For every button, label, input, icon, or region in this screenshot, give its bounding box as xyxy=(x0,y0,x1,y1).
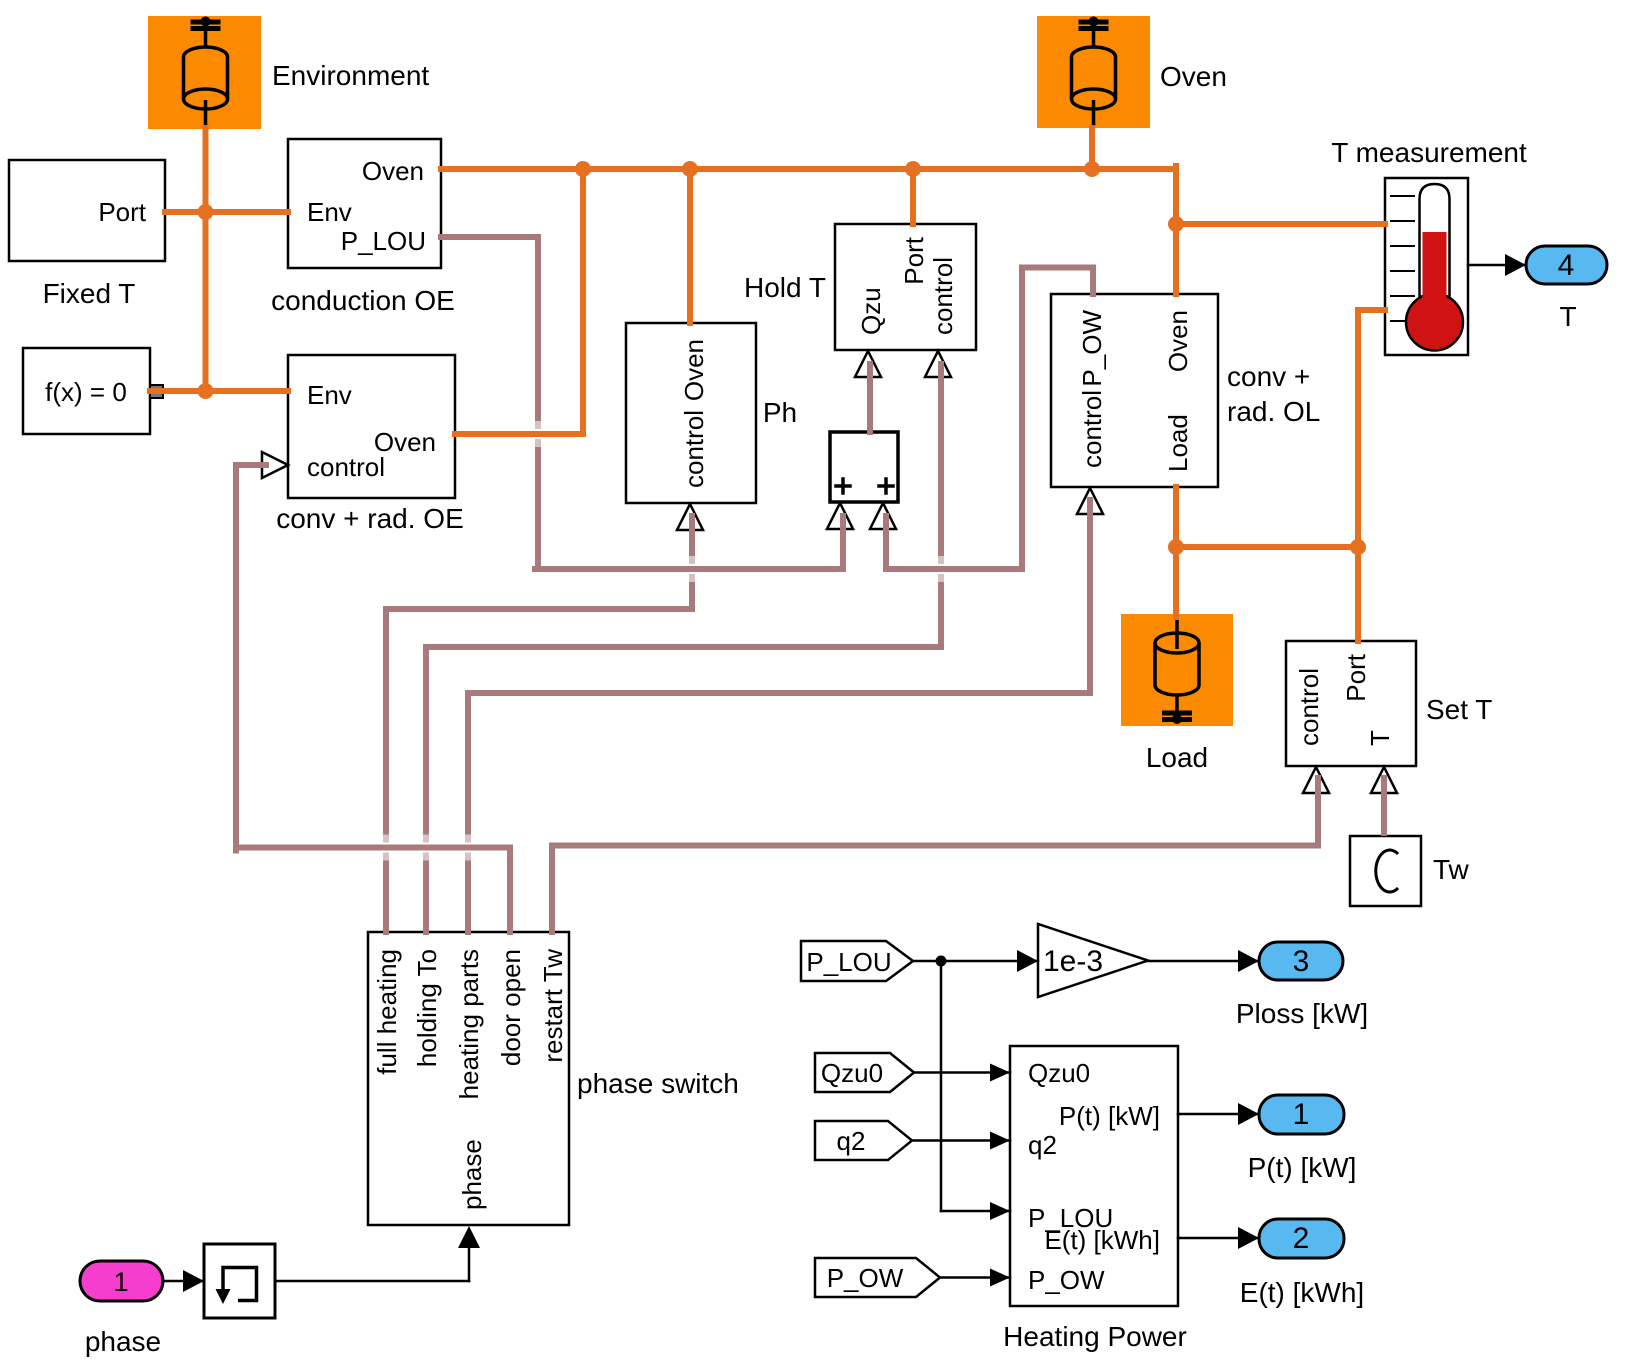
svg-text:Hold T: Hold T xyxy=(744,272,826,303)
svg-text:1: 1 xyxy=(113,1267,128,1297)
wire P_LOU to sum left xyxy=(441,237,843,569)
wire conv+rad OL P_OW to sum right xyxy=(886,268,1093,570)
svg-text:phase switch: phase switch xyxy=(577,1068,739,1099)
svg-text:P_OW: P_OW xyxy=(827,1263,904,1293)
wire bus to Ph Oven xyxy=(687,169,693,323)
wire Oven block drop xyxy=(1089,128,1095,169)
svg-text:phase: phase xyxy=(85,1326,161,1357)
svg-text:Port: Port xyxy=(1341,653,1371,701)
svg-text:Oven: Oven xyxy=(1160,61,1227,92)
svg-text:control: control xyxy=(679,410,709,488)
output port 4 T xyxy=(1526,246,1607,332)
wire f(x)=0 to Env xyxy=(150,388,288,394)
wire T measurement to port 4 xyxy=(1468,254,1526,276)
svg-text:control: control xyxy=(307,452,385,482)
block T measurement (thermometer) xyxy=(1331,137,1527,355)
wire up to T measurement lower port xyxy=(1358,310,1385,547)
svg-text:conv + rad. OE: conv + rad. OE xyxy=(276,503,464,534)
svg-text:f(x) = 0: f(x) = 0 xyxy=(45,377,127,407)
wire phase switch full heating to Ph control xyxy=(386,516,692,932)
svg-text:heating parts: heating parts xyxy=(454,949,484,1099)
svg-text:Qzu0: Qzu0 xyxy=(821,1058,883,1088)
svg-text:Oven: Oven xyxy=(362,156,424,186)
svg-text:Oven: Oven xyxy=(679,339,709,401)
block phase switch xyxy=(368,932,739,1225)
svg-text:P_OW: P_OW xyxy=(1077,310,1107,387)
wire phase switch restart Tw to Set T control xyxy=(552,778,1318,932)
wire Oven bus xyxy=(441,169,1176,224)
wire phase switch door open to conv+rad OE control xyxy=(236,465,510,932)
from tag Qzu0 xyxy=(815,1053,914,1092)
svg-text:1e-3: 1e-3 xyxy=(1043,945,1103,978)
wire down to Set T Port xyxy=(1355,547,1361,641)
svg-text:Ploss [kW]: Ploss [kW] xyxy=(1236,998,1368,1029)
output port 3 xyxy=(1236,942,1368,1029)
svg-text:T: T xyxy=(1559,301,1576,332)
wire to T measurement upper port xyxy=(1176,221,1385,227)
node bus junction A xyxy=(575,161,591,177)
svg-text:full heating: full heating xyxy=(372,949,402,1075)
wire Qzu0 tag to Heating Power xyxy=(914,1064,1010,1082)
svg-text:P_OW: P_OW xyxy=(1028,1265,1105,1295)
svg-text:Tw: Tw xyxy=(1433,854,1470,885)
node bus junction B xyxy=(682,161,698,177)
wire gain to port 3 xyxy=(1148,950,1259,972)
svg-text:conv +: conv + xyxy=(1227,361,1310,392)
block conv + rad. OE xyxy=(262,355,464,534)
svg-text:control: control xyxy=(1077,390,1107,468)
block Tw constant C xyxy=(1350,836,1470,906)
svg-text:rad. OL: rad. OL xyxy=(1227,396,1320,427)
svg-text:Port: Port xyxy=(899,236,929,284)
svg-text:control: control xyxy=(928,257,958,335)
output port 2 xyxy=(1240,1219,1364,1308)
wire Tw to Set T T xyxy=(1381,778,1387,833)
svg-text:P_LOU: P_LOU xyxy=(806,947,891,977)
node bus junction C xyxy=(905,161,921,177)
from tag P_OW xyxy=(815,1258,940,1297)
wire P_LOU branch to Heating Power xyxy=(941,961,1010,1220)
wire phase port to repeating block xyxy=(163,1270,204,1292)
block conduction OE xyxy=(271,139,455,316)
svg-text:Load: Load xyxy=(1163,414,1193,472)
node Set T junction xyxy=(1350,539,1366,555)
svg-text:Ph: Ph xyxy=(763,397,797,428)
wire P_OW tag to Heating Power xyxy=(940,1269,1010,1287)
block f(x)=0 solver configuration xyxy=(23,348,163,434)
wire Heating Power to port 2 xyxy=(1178,1227,1259,1249)
svg-text:phase: phase xyxy=(457,1139,487,1210)
sum block ++ xyxy=(827,432,898,529)
svg-text:Fixed T: Fixed T xyxy=(43,278,136,309)
wire Heating Power to port 1 xyxy=(1178,1103,1259,1125)
block Environment (thermal reference) xyxy=(148,16,429,129)
wire q2 tag to Heating Power xyxy=(912,1132,1010,1150)
svg-text:P(t) [kW]: P(t) [kW] xyxy=(1059,1101,1160,1131)
svg-text:conduction OE: conduction OE xyxy=(271,285,455,316)
wire phase switch heating parts to conv+rad OL control xyxy=(468,500,1090,932)
wire Load junction to right xyxy=(1176,544,1358,550)
svg-text:restart Tw: restart Tw xyxy=(538,949,568,1063)
svg-text:E(t) [kWh]: E(t) [kWh] xyxy=(1044,1225,1160,1255)
svg-text:Port: Port xyxy=(98,197,146,227)
svg-text:Env: Env xyxy=(307,380,352,410)
wire bus down to conv+rad OL Oven xyxy=(1173,166,1179,294)
wire repeating block to phase switch xyxy=(275,1226,480,1281)
svg-text:3: 3 xyxy=(1293,945,1310,978)
svg-text:Heating Power: Heating Power xyxy=(1003,1321,1187,1352)
svg-text:4: 4 xyxy=(1558,249,1575,282)
block Fixed T (temperature source) xyxy=(9,160,165,309)
node Load junction xyxy=(1168,539,1184,555)
svg-text:Oven: Oven xyxy=(1163,310,1193,372)
from tag P_LOU xyxy=(801,941,913,981)
svg-text:Qzu: Qzu xyxy=(856,287,886,335)
wire phase switch holding To to Hold T control xyxy=(426,364,941,932)
wire conv+rad OL Load down xyxy=(1173,487,1179,617)
block Hold T xyxy=(744,224,976,377)
svg-text:control: control xyxy=(1294,668,1324,746)
block Ph xyxy=(626,323,797,530)
svg-text:E(t) [kWh]: E(t) [kWh] xyxy=(1240,1277,1364,1308)
svg-text:door open: door open xyxy=(496,949,526,1066)
block Heating Power xyxy=(1003,1046,1187,1352)
wire sum output to Hold T Qzu xyxy=(867,364,873,432)
svg-text:q2: q2 xyxy=(837,1126,866,1156)
node Environment-f(x) junction xyxy=(198,383,214,399)
wire Fixed T Port to Env xyxy=(165,209,288,215)
wire bus to conv+rad OE Oven xyxy=(455,169,583,434)
repeating sequence block xyxy=(204,1244,275,1318)
block conv + rad. OL xyxy=(1051,294,1320,514)
svg-text:P(t) [kW]: P(t) [kW] xyxy=(1248,1152,1357,1183)
block Load (thermal mass) xyxy=(1121,614,1233,773)
gain 1e-3 xyxy=(1038,924,1148,997)
svg-text:Env: Env xyxy=(307,197,352,227)
svg-text:Set T: Set T xyxy=(1426,694,1492,725)
node bus junction D xyxy=(1084,161,1100,177)
svg-text:holding To: holding To xyxy=(412,949,442,1067)
svg-text:1: 1 xyxy=(1293,1098,1310,1131)
svg-text:P_LOU: P_LOU xyxy=(341,226,426,256)
block Oven (thermal reference) xyxy=(1037,16,1227,128)
wire bus to Hold T Port xyxy=(910,169,916,224)
svg-text:q2: q2 xyxy=(1028,1130,1057,1160)
wire Environment vertical xyxy=(203,128,209,391)
node T-feed junction xyxy=(1168,216,1184,232)
output port 1 xyxy=(1248,1095,1357,1183)
from tag q2 xyxy=(815,1121,912,1160)
svg-text:T measurement: T measurement xyxy=(1331,137,1527,168)
svg-text:Load: Load xyxy=(1146,742,1208,773)
svg-text:Qzu0: Qzu0 xyxy=(1028,1058,1090,1088)
svg-text:Environment: Environment xyxy=(272,60,429,91)
input port 1 phase xyxy=(80,1261,163,1357)
node Environment-Port junction xyxy=(198,204,214,220)
block Set T xyxy=(1286,641,1492,793)
svg-text:T: T xyxy=(1365,730,1395,746)
wire P_LOU tag to gain xyxy=(914,950,1038,972)
svg-text:2: 2 xyxy=(1293,1222,1310,1255)
node P_LOU branch xyxy=(936,956,947,967)
